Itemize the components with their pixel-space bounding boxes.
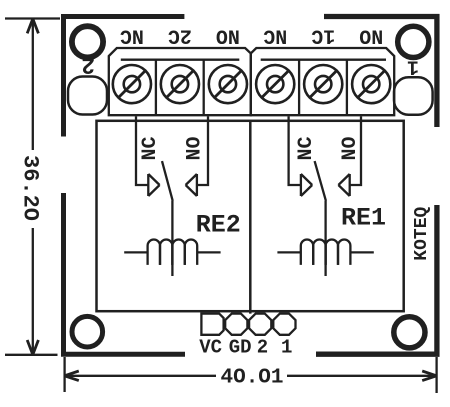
- terminal block left divider 2: [203, 60, 205, 115]
- dimension 36.20 top extension tick: [5, 17, 60, 19]
- dimension 40.01 right extension line: [435, 357, 437, 393]
- svg-text:VC: VC: [199, 337, 222, 359]
- relay RE2 NO contact arrow: [186, 174, 197, 196]
- dimension arrow up: [27, 19, 38, 34]
- terminal screw 1: [113, 65, 151, 103]
- terminal block left outline: [109, 48, 251, 115]
- mounting hole bottom-right: [394, 317, 425, 348]
- relay RE1 NO wire: [350, 116, 361, 185]
- terminal block right divider 2: [346, 60, 348, 115]
- relay RE2 coil: [124, 239, 220, 264]
- mounting hole top-right: [398, 26, 429, 57]
- svg-text:RE2: RE2: [196, 210, 241, 239]
- svg-text:36.2O: 36.2O: [17, 155, 42, 221]
- svg-text:1: 1: [281, 337, 292, 359]
- relay RE1 NO contact arrow: [338, 174, 349, 196]
- svg-text:4O.O1: 4O.O1: [220, 366, 283, 389]
- board corner bracket top-left: [64, 17, 185, 137]
- relay RE1 NC contact arrow: [301, 174, 312, 196]
- relay RE2 NO wire: [197, 116, 208, 185]
- dimension arrow down: [27, 340, 38, 355]
- terminal screw 5: [304, 65, 342, 103]
- svg-text:NC: NC: [263, 24, 287, 47]
- dimension arrow left: [64, 371, 78, 381]
- terminal block left divider 1: [155, 60, 157, 115]
- svg-text:NO: NO: [359, 24, 383, 47]
- relay RE2 switch lever: [162, 161, 173, 201]
- relay RE1 switch lever: [315, 161, 326, 201]
- component body outline: [97, 121, 404, 311]
- svg-text:RE1: RE1: [341, 204, 386, 233]
- board corner bracket top-right: [324, 17, 437, 128]
- connector pad GD: [225, 314, 247, 335]
- terminal screw 6: [352, 65, 390, 103]
- board corner bracket bottom-left: [64, 193, 186, 354]
- board corner bracket bottom-right: [316, 205, 437, 354]
- relay RE1 coil: [277, 239, 373, 264]
- svg-text:2: 2: [257, 337, 268, 359]
- dimension 36.20 bottom extension tick: [5, 354, 58, 356]
- terminal block left inner line: [121, 59, 240, 61]
- relay RE2 common wire: [171, 201, 173, 276]
- terminal block right outline: [251, 48, 394, 115]
- component body center divider: [249, 121, 252, 314]
- svg-text:NC: NC: [139, 136, 162, 160]
- svg-text:KOTEQ: KOTEQ: [412, 207, 432, 261]
- dimension 36.20 line lower segment: [32, 228, 34, 354]
- dimension 40.01 left extension line: [63, 357, 65, 392]
- svg-text:2C: 2C: [168, 24, 192, 47]
- connector pad 2: [249, 314, 271, 335]
- dimension 36.20 line upper segment: [32, 20, 34, 151]
- terminal screw 4: [256, 65, 294, 103]
- connector pad 1: [273, 314, 295, 335]
- relay RE1 NC wire: [289, 116, 301, 185]
- svg-text:2: 2: [81, 51, 95, 77]
- svg-text:NO: NO: [339, 136, 362, 160]
- dimension arrow right: [422, 371, 436, 381]
- svg-text:1C: 1C: [311, 24, 335, 47]
- terminal block right inner line: [261, 59, 386, 61]
- mounting hole bottom-left: [72, 316, 103, 347]
- terminal block right divider 1: [298, 60, 300, 115]
- mounting hole top-left: [72, 26, 103, 57]
- terminal screw 2: [161, 65, 199, 103]
- svg-text:GD: GD: [229, 337, 252, 359]
- svg-text:1: 1: [407, 54, 419, 77]
- relay RE2 NC wire: [136, 116, 148, 185]
- svg-text:NO: NO: [216, 24, 240, 47]
- pad top-right: [394, 77, 433, 114]
- svg-text:NO: NO: [184, 136, 207, 160]
- pad top-left: [68, 77, 107, 115]
- relay RE1 common wire: [324, 201, 326, 276]
- svg-text:NC: NC: [295, 136, 318, 160]
- dimension 40.01 line left segment: [66, 375, 217, 377]
- terminal screw 3: [209, 65, 247, 103]
- relay RE2 NC contact arrow: [148, 174, 159, 196]
- connector pad VC (square): [201, 314, 223, 335]
- svg-text:NC: NC: [120, 24, 144, 47]
- dimension 40.01 line right segment: [287, 375, 436, 377]
